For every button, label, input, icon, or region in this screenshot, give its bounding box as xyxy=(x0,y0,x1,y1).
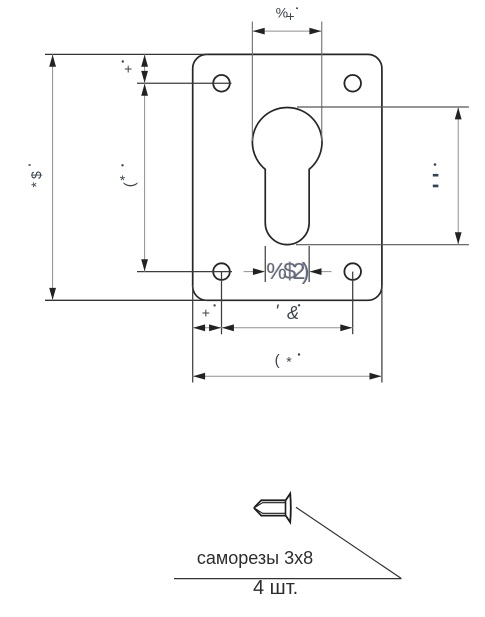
dimension line bottom long xyxy=(193,375,382,377)
extension line bottom plate-left xyxy=(192,285,194,383)
svg-text:&: & xyxy=(287,303,299,323)
extension line slot left xyxy=(264,246,266,282)
plate outline xyxy=(193,54,382,300)
svg-text:%$2): %$2) xyxy=(266,258,309,284)
extension line top dim left xyxy=(251,22,253,142)
dimension line left inner short xyxy=(144,54,146,83)
hole bottom-left xyxy=(213,263,230,280)
keyhole cutout xyxy=(252,107,322,244)
dimension line left inner long xyxy=(144,83,146,271)
svg-text:4 шт.: 4 шт. xyxy=(253,577,298,599)
hole top-right xyxy=(344,75,361,92)
hole top-left xyxy=(213,75,230,92)
screw body outline xyxy=(254,500,286,515)
extension line right bottom xyxy=(296,244,469,246)
leader diagonal line xyxy=(296,507,401,578)
svg-text:(: ( xyxy=(275,352,280,369)
dimension middle left arrow xyxy=(244,271,264,273)
label right dim (dot and two dashes) xyxy=(434,163,437,166)
screw shaft inner bottom line xyxy=(262,512,285,514)
dimension line bottom mid xyxy=(222,327,353,329)
extension line holes bottom-left row xyxy=(137,271,232,273)
dimension line right xyxy=(457,107,459,245)
svg-text:+: + xyxy=(286,8,294,24)
svg-text:саморезы 3x8: саморезы 3x8 xyxy=(197,548,313,568)
extension line holes top row xyxy=(137,82,232,84)
hole bottom-right xyxy=(344,263,361,280)
dimension line top xyxy=(252,30,321,32)
leader horizontal line xyxy=(174,578,402,580)
svg-text:+: + xyxy=(202,304,210,320)
dimension line bottom short xyxy=(193,327,222,329)
screw tip inner lower diagonal xyxy=(255,509,262,514)
screw shaft inner top line xyxy=(262,502,285,504)
dimension middle right arrow xyxy=(310,271,331,273)
extension line right top xyxy=(297,106,469,108)
screw head xyxy=(286,494,291,523)
svg-text:*: * xyxy=(286,354,292,370)
extension line plate bottom-left xyxy=(45,299,208,301)
svg-text:+: + xyxy=(124,60,132,76)
svg-text:*$: *$ xyxy=(28,168,44,187)
dimension line left outer xyxy=(52,54,54,300)
extension line bottom hole-right xyxy=(352,272,354,335)
extension line bottom plate-right xyxy=(381,285,383,383)
extension line slot right xyxy=(308,246,310,282)
extension line bottom hole-left xyxy=(221,272,223,335)
extension line top dim right xyxy=(321,22,323,142)
extension line plate top-left xyxy=(45,53,208,55)
svg-text:': ' xyxy=(275,301,279,321)
screw head junction line xyxy=(285,500,287,515)
screw tip inner upper diagonal xyxy=(255,503,262,508)
svg-text:*: * xyxy=(120,172,126,188)
